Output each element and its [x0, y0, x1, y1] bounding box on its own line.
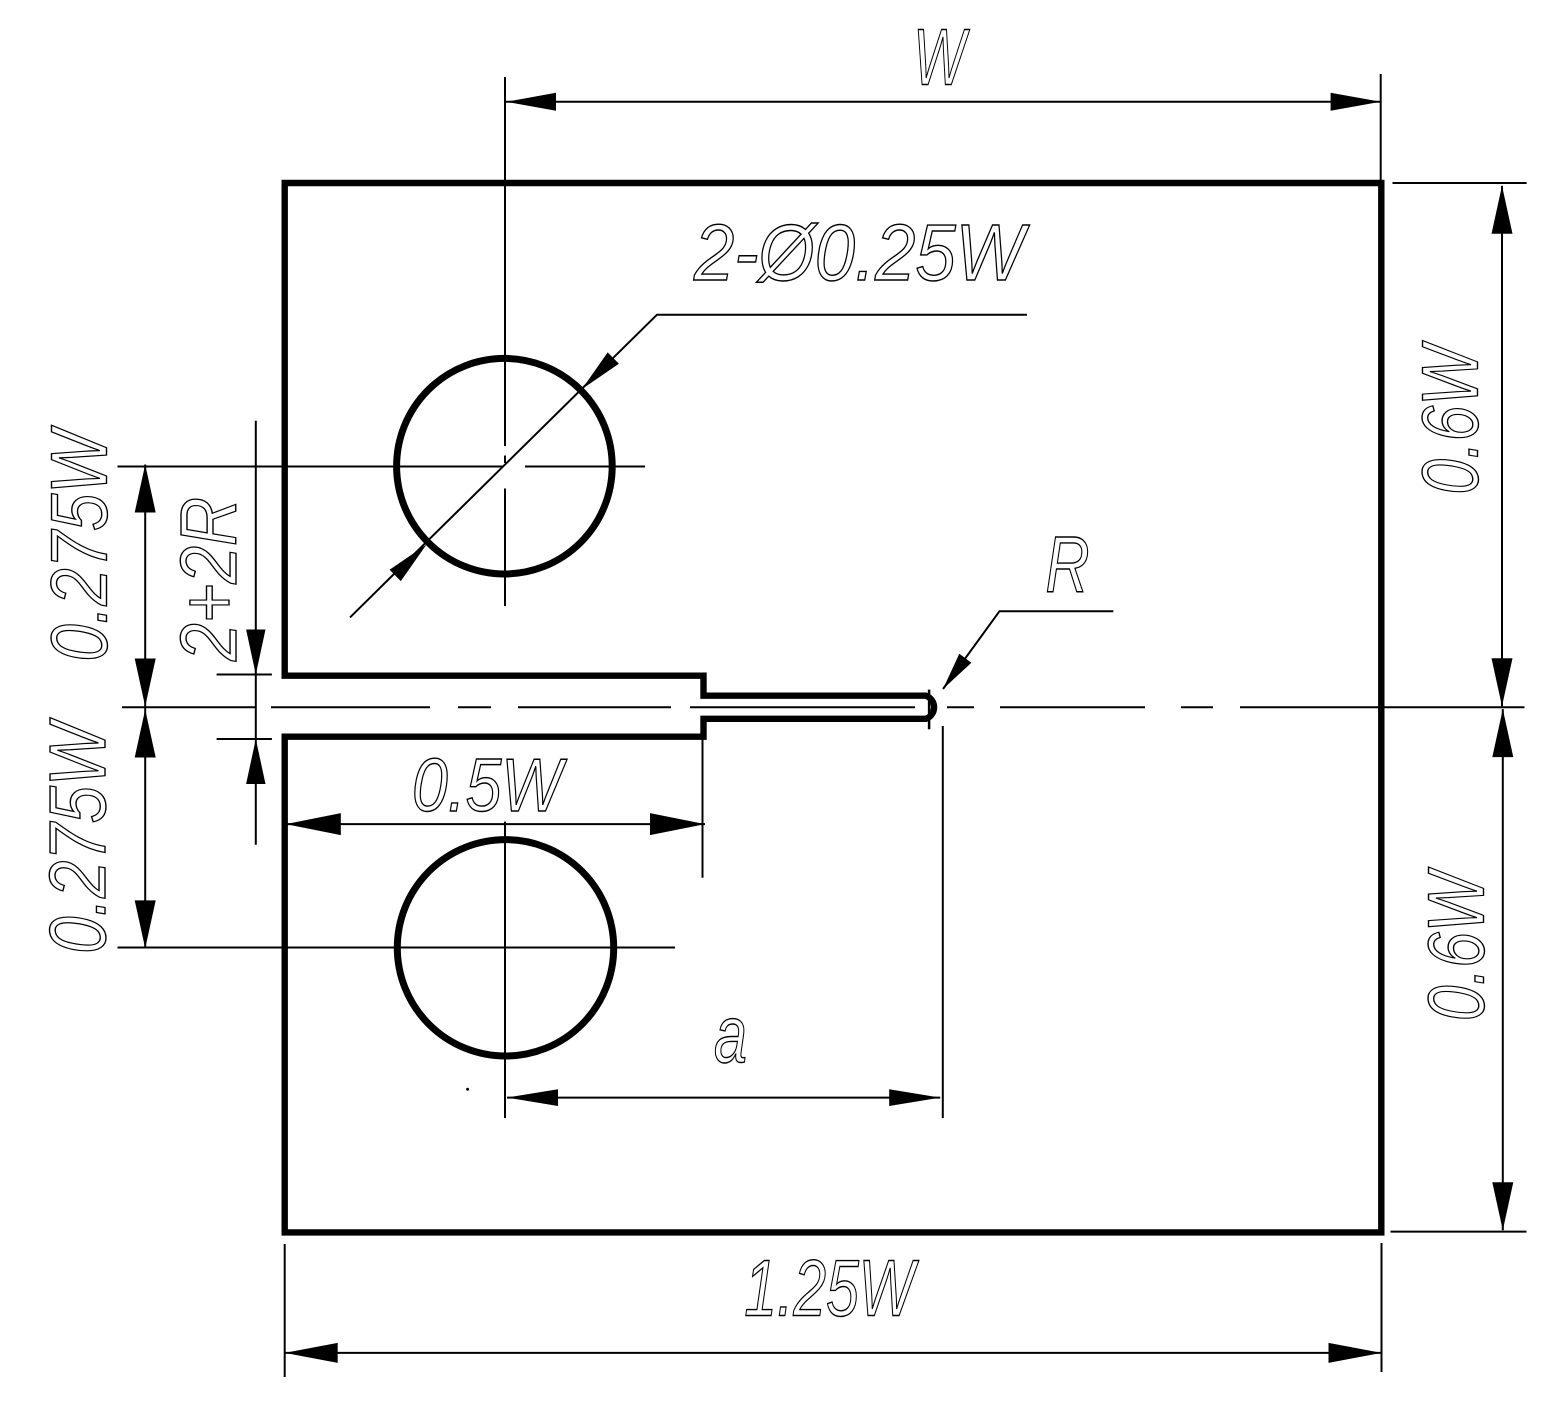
svg-text:0.5W: 0.5W: [412, 743, 567, 827]
leader 2-dia0.25W polyline: [350, 315, 1027, 618]
horizontal dash-dot centerline: [122, 706, 255, 708]
dim 1.25W left extension line: [284, 1244, 286, 1377]
leader 2-dia0.25W arrow lower: [390, 545, 427, 582]
specimen outline with machined notch: [285, 183, 1382, 1232]
dim a right extension line: [942, 726, 944, 1118]
dim 2+2R lower extension tick: [217, 738, 272, 740]
svg-text:2-Ø0.25W: 2-Ø0.25W: [693, 208, 1030, 297]
dim 2+2R upper extension tick: [217, 674, 272, 676]
dim 1.25W dimension line: [285, 1352, 1382, 1354]
leader R polyline: [943, 611, 1113, 689]
lower hole horizontal centerline / 0.275W extension: [118, 947, 676, 949]
svg-text:W: W: [914, 13, 970, 102]
lower hole vertical centerline / a extension: [504, 822, 506, 1118]
dim 0.275W dimension line: [144, 465, 146, 949]
dim 0.6W lower dimension line: [1502, 709, 1504, 1230]
svg-text:0.275W: 0.275W: [33, 717, 122, 953]
dim a dimension line: [507, 1097, 940, 1099]
lower pin hole: [397, 840, 613, 1056]
svg-text:0.6W: 0.6W: [1412, 867, 1501, 1021]
svg-text:1.25W: 1.25W: [744, 1244, 919, 1333]
dim 2+2R dimension line: [255, 421, 257, 845]
dim 0.6W upper dimension line: [1501, 186, 1503, 707]
dim 0.5W right extension line: [702, 722, 704, 878]
svg-text:0.6W: 0.6W: [1406, 340, 1495, 494]
svg-text:2+2R: 2+2R: [164, 497, 253, 662]
dim W right extension line: [1380, 74, 1382, 180]
dim 0.6W upper top extension line: [1393, 182, 1527, 184]
leader 2-dia0.25W arrow upper: [582, 352, 619, 389]
notch tip chord line: [928, 690, 931, 730]
svg-text:0.275W: 0.275W: [35, 425, 124, 661]
dim 1.25W right extension line: [1381, 1243, 1383, 1372]
leader R arrow: [943, 654, 971, 689]
dim 0.6W lower bottom extension line: [1391, 1231, 1527, 1233]
dim 0.5W dimension line: [286, 823, 705, 825]
stray speck: [466, 1088, 469, 1091]
upper hole horizontal centerline / 0.275W extension: [118, 466, 503, 468]
upper hole vertical centerline / W extension: [504, 77, 506, 446]
svg-text:R: R: [1046, 520, 1090, 609]
upper pin hole: [397, 358, 613, 574]
svg-text:a: a: [714, 990, 747, 1080]
dim W dimension line: [506, 101, 1381, 103]
